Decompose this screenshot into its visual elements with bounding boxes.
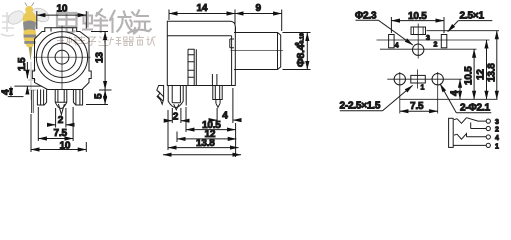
dim 12 right vertical: [486, 40, 488, 99]
svg-text:3: 3: [495, 119, 499, 126]
svg-text:1.5: 1.5: [17, 57, 28, 71]
extra bottom dim line: [163, 154, 241, 156]
ext line top slot level: [427, 30, 500, 32]
watermark layer: [1, 3, 156, 101]
lower-left hole phi2.1: [394, 74, 405, 85]
barb pin: [157, 86, 164, 105]
svg-text:14: 14: [197, 3, 208, 14]
terminal 4 circle: [486, 135, 490, 139]
dim 2.5x1 leader: [458, 20, 492, 22]
inner column: [212, 74, 217, 86]
dim 7.5 bottom: [38, 107, 73, 141]
svg-text:-0.19: -0.19: [300, 33, 306, 46]
line B through center hole: [380, 48, 477, 50]
faint corner char remnant: [1, 12, 14, 36]
svg-text:4: 4: [1, 89, 12, 95]
svg-text:7.5: 7.5: [410, 101, 424, 112]
terminal 3 circle: [486, 119, 490, 123]
dim 2-2.5x1.5 leader: [340, 110, 383, 112]
svg-text:1: 1: [421, 85, 425, 92]
dim 7.5 bottom: [400, 110, 438, 112]
dim 4 right vertical: [459, 79, 461, 99]
dim 13 right: [91, 32, 112, 91]
dim phi2.3 leader: [356, 19, 379, 21]
svg-text:2-Φ2.1: 2-Φ2.1: [460, 103, 490, 114]
inner right wall: [231, 36, 233, 86]
bee abdomen striped: [23, 29, 36, 47]
body outline: [167, 21, 235, 85]
svg-text:12: 12: [476, 69, 487, 80]
dim 13.8 right vertical: [496, 31, 498, 100]
svg-text:13: 13: [95, 52, 106, 63]
bee thorax dark band: [23, 21, 36, 33]
dim 4 left: [8, 96, 24, 98]
big watermark char 选: [128, 10, 152, 35]
bee stinger: [29, 47, 33, 61]
dim 2 bottom: [56, 108, 66, 128]
left slot 2.5x1.5: [389, 35, 395, 48]
terminal 1 circle: [486, 143, 490, 147]
center pin: [55, 90, 67, 115]
bee head: [25, 6, 33, 14]
big watermark char 电: [57, 9, 77, 33]
big watermark char 优: [110, 10, 136, 33]
dim 12 bottom: [176, 132, 178, 143]
vertical centerline top slot + hole: [417, 24, 419, 59]
lower centerline: [387, 78, 462, 80]
svg-text:4: 4: [450, 90, 461, 96]
svg-text:2.5×1: 2.5×1: [460, 11, 485, 22]
svg-text:4: 4: [495, 135, 499, 142]
body seam line: [167, 35, 231, 37]
baseline: [400, 98, 498, 100]
dim 10.5 top: [391, 17, 444, 33]
outer circle: [36, 32, 87, 83]
svg-text:Φ2.3: Φ2.3: [355, 11, 377, 22]
wire terminal 1: [453, 144, 486, 146]
svg-text:3: 3: [426, 35, 430, 42]
dim 5 right: [86, 104, 108, 106]
svg-text:1: 1: [495, 143, 499, 150]
svg-text:2: 2: [495, 126, 499, 133]
terminal 2 circle: [486, 126, 490, 130]
svg-text:10: 10: [57, 4, 68, 15]
top slot 2.5x1: [411, 27, 426, 35]
top tab notches: [51, 28, 73, 32]
dim 10 bottom: [31, 114, 86, 152]
center lines: [34, 26, 91, 90]
dim 1.5 left: [14, 62, 41, 86]
sleeve bar: [449, 118, 454, 147]
svg-text:13.8: 13.8: [196, 138, 215, 149]
bee logo wings: [6, 8, 27, 27]
dim 10.5 right vertical: [473, 49, 475, 99]
dim phi8.4 right: [283, 33, 311, 70]
svg-text:7.5: 7.5: [54, 128, 68, 139]
svg-text:2: 2: [434, 42, 438, 49]
faint lower tile remnant bar: [28, 62, 36, 100]
barrel: [234, 27, 281, 69]
small watermark text 电蜂电子连接器商城: [57, 36, 156, 47]
dim 9 top: [281, 10, 283, 32]
svg-text:2: 2: [58, 115, 64, 126]
dim 10 top: [37, 11, 87, 29]
center hole: [55, 50, 69, 64]
svg-text:13.8: 13.8: [487, 63, 498, 82]
dim 13.8 bottom: [167, 110, 169, 150]
side contact ladder: [188, 49, 196, 85]
big watermark char 蜂: [82, 9, 108, 34]
wire terminal 3 with spring arm: [454, 118, 486, 124]
body outline chamfered: [32, 28, 91, 90]
dim 2 bottom: [172, 108, 181, 123]
barrel center line: [231, 50, 284, 52]
dim 14 top: [169, 10, 235, 27]
line A through side slots: [377, 39, 490, 41]
svg-text:4: 4: [395, 43, 399, 50]
svg-text:2: 2: [173, 112, 179, 123]
wire terminal 2 with tick: [471, 123, 487, 129]
lower-right hole phi2.1: [432, 74, 443, 85]
svg-text:2-2.5×1.5: 2-2.5×1.5: [340, 101, 381, 112]
ladder front pin: [185, 86, 187, 106]
dim 2-phi2.1 leader: [456, 112, 491, 114]
left edge-on pin: [32, 90, 34, 113]
dim 10.5 bottom: [186, 107, 236, 157]
bee thorax: [23, 11, 37, 27]
wire terminal 4 with tip contact: [454, 134, 486, 140]
svg-text:10.5: 10.5: [408, 11, 427, 22]
body right wall notch: [230, 39, 234, 48]
svg-text:Φ8.4: Φ8.4: [295, 44, 307, 67]
svg-text:4: 4: [222, 111, 228, 122]
svg-text:10: 10: [60, 140, 71, 151]
ring 3: [48, 43, 76, 71]
ring 2: [42, 37, 83, 78]
right pin: [73, 90, 82, 106]
pin C: [213, 86, 222, 108]
left pin: [37, 90, 46, 106]
bottom slot: [411, 75, 426, 83]
center hole phi2.3: [413, 44, 424, 55]
svg-text:9: 9: [256, 3, 262, 14]
svg-text:10.5: 10.5: [464, 66, 475, 85]
right slot 2.5x1.5: [441, 35, 447, 48]
pin B: [168, 86, 183, 110]
dim 4 bottom: [217, 88, 233, 123]
bee antennae: [25, 3, 34, 7]
svg-text:5: 5: [94, 93, 105, 99]
